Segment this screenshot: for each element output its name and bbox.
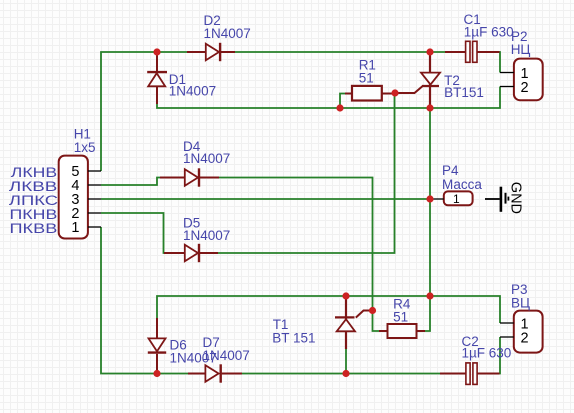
wire bottom rail D7 cathode to C2 [241,373,441,375]
connector H1 [59,156,101,239]
junction dot R1 right T2 gate [391,89,398,96]
wire H1 pin2 to D5 anode [101,213,166,253]
svg-text:1N4007: 1N4007 [204,26,251,41]
svg-text:ПКВВ: ПКВВ [10,221,58,236]
svg-text:1µF 630: 1µF 630 [464,24,514,39]
wire H1 pin1 down to bottom rail [101,227,189,374]
resistor R1 [345,86,395,101]
svg-text:1N4007: 1N4007 [183,228,230,243]
diode D1 [147,52,167,104]
diode D7 [188,364,242,382]
diode D5 [164,244,218,262]
svg-text:1N4007: 1N4007 [183,151,230,166]
wire top rail D2 cathode to C1 [235,51,445,53]
svg-text:ПКНВ: ПКНВ [10,207,58,222]
wire R1 left lead elbow down to mid rail [340,94,348,109]
wire mid rail y108 from D1 bottom to T2 junction [157,103,431,108]
capacitor C1 [445,41,500,62]
svg-text:1N4007: 1N4007 [203,348,250,363]
resistor R4 [379,324,425,338]
junction dot R4 right rail y296 [426,292,433,299]
junction dot T2 cathode mid rail [426,104,433,111]
thyristor T2 [395,52,440,108]
wire rail y296 D6 top to P3 pin1 [157,296,500,323]
junction dot D1 top rail [153,48,160,55]
capacitor C2 [440,363,500,385]
svg-text:BT151: BT151 [444,85,484,100]
svg-text:BT 151: BT 151 [272,330,315,345]
svg-text:1: 1 [71,220,79,236]
svg-text:2: 2 [520,331,528,347]
wire C1 right to P2 pin1 [499,52,500,73]
wire top rail D1 junction to D2 anode [157,51,187,53]
wire T1 gate junction down to R4 left lead [373,311,381,332]
junction dot R1 left mid rail [336,104,343,111]
wire D5 output up to T2 gate junction [218,94,395,253]
connector P4 [431,191,473,205]
svg-text:ЛПКС: ЛПКС [9,193,59,208]
svg-text:НЦ: НЦ [511,42,531,57]
svg-text:Масса: Масса [442,177,482,192]
svg-text:ВЦ: ВЦ [511,296,530,311]
junction dot D6 bottom rail [153,370,160,377]
diode D2 [187,43,235,61]
junction dot T2 anode top rail [426,48,433,55]
wire H1 pin3 to P4 [101,198,431,200]
connector P3 [500,311,543,353]
wire T1 cathode to bottom rail [345,349,347,374]
connector P2 [500,59,543,101]
diode D6 [148,318,166,374]
svg-text:ЛКВВ: ЛКВВ [9,179,57,194]
svg-text:2: 2 [520,80,528,96]
wire D4 output right and down to T1 gate junction [218,178,373,311]
svg-text:1: 1 [453,192,460,206]
wire P2 pin2 down and left to T2 cathode junction [429,87,500,109]
svg-text:P4: P4 [442,163,459,178]
svg-text:51: 51 [393,310,408,325]
thyristor T1 [335,298,373,349]
junction dot T1 anode rail y296 [342,292,349,299]
wire R4 right lead up to junction [424,296,430,331]
svg-text:1µF 630: 1µF 630 [462,346,512,361]
diode D4 [160,168,219,186]
wire pin5 of H1 up to top rail [101,52,158,171]
svg-text:51: 51 [359,70,374,85]
wire vertical x430 from T2 cathode to R4 right junction [429,108,431,296]
svg-text:1N4007: 1N4007 [169,84,216,99]
wire C2 right up to P3 pin2 [499,337,500,374]
wire H1 pin4 to D4 anode [101,178,164,186]
ground symbol GND [485,182,523,214]
svg-text:1x5: 1x5 [74,140,96,155]
junction dot T1 gate R4 left [369,307,376,314]
svg-text:ЛКНВ: ЛКНВ [11,165,57,180]
junction dot T1 cathode bottom rail [342,370,349,377]
junction dot P4 branch [426,195,433,202]
svg-text:GND: GND [507,182,523,214]
